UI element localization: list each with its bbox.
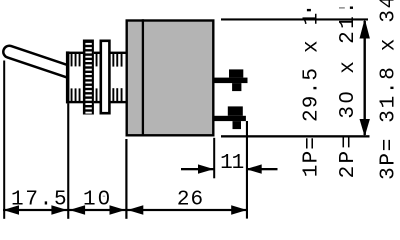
svg-text:10: 10 xyxy=(83,189,110,212)
svg-text:11: 11 xyxy=(220,152,244,175)
thread ticks top xyxy=(71,54,123,67)
svg-text:2P= 30 x 21.5: 2P= 30 x 21.5 xyxy=(337,0,360,178)
bushing cylinder top edge xyxy=(66,52,126,54)
terminal 1 (upper solder lug) xyxy=(214,69,248,91)
lock washer xyxy=(101,41,110,113)
arrow left tip at E2 (10 left) xyxy=(69,205,85,214)
main dimension line (bottom) xyxy=(3,209,247,211)
svg-text:17.5: 17.5 xyxy=(11,189,67,212)
right vertical dimension line (3P height) xyxy=(364,21,366,135)
switch body xyxy=(127,21,214,136)
svg-text:1P= 29.5 x 1: 1P= 29.5 x 1 xyxy=(301,13,324,177)
plain-zero fix for "30" xyxy=(343,96,349,100)
extension line E4 (body right) xyxy=(213,138,215,179)
11 dimension line left part xyxy=(181,168,214,170)
remnant mark column 1 xyxy=(307,9,311,11)
thread ticks bottom xyxy=(71,88,123,101)
arrow left tip (17.5 left) xyxy=(3,205,19,214)
extension line E3 (body left) xyxy=(125,139,127,219)
svg-text:26: 26 xyxy=(177,189,203,212)
arrow right tip at E3 (10 right) xyxy=(110,205,126,214)
terminal 2 (lower solder lug) xyxy=(214,106,246,129)
plain-zero fix for "10" xyxy=(102,196,106,200)
arrow left tip at E3 (26 left) xyxy=(128,205,144,214)
arrow right tip at E5 (26 right) xyxy=(231,205,247,214)
extension line E1 (lever tip) xyxy=(3,61,5,219)
11 dimension line right part xyxy=(246,168,278,170)
extension line E5 (terminal tip) xyxy=(246,121,248,219)
arrow down xyxy=(360,119,370,137)
bushing front face xyxy=(66,51,70,103)
bottom extension line (body bottom, to right) xyxy=(221,135,370,137)
arrow right tip at E2 (17.5 right) xyxy=(51,205,67,214)
bushing cylinder bottom edge xyxy=(66,101,126,103)
hex nut (knurled, side view) xyxy=(83,40,94,115)
11 arrow pointing right at E4 xyxy=(198,164,214,173)
top extension line (body top, to right) xyxy=(221,18,368,20)
extension line E2 (bushing face) xyxy=(67,103,69,219)
arrow up xyxy=(360,19,370,39)
body seam line xyxy=(142,19,144,136)
11 arrow pointing left at E5 xyxy=(246,164,262,173)
remnant mark column 2 (faint) xyxy=(339,7,345,9)
